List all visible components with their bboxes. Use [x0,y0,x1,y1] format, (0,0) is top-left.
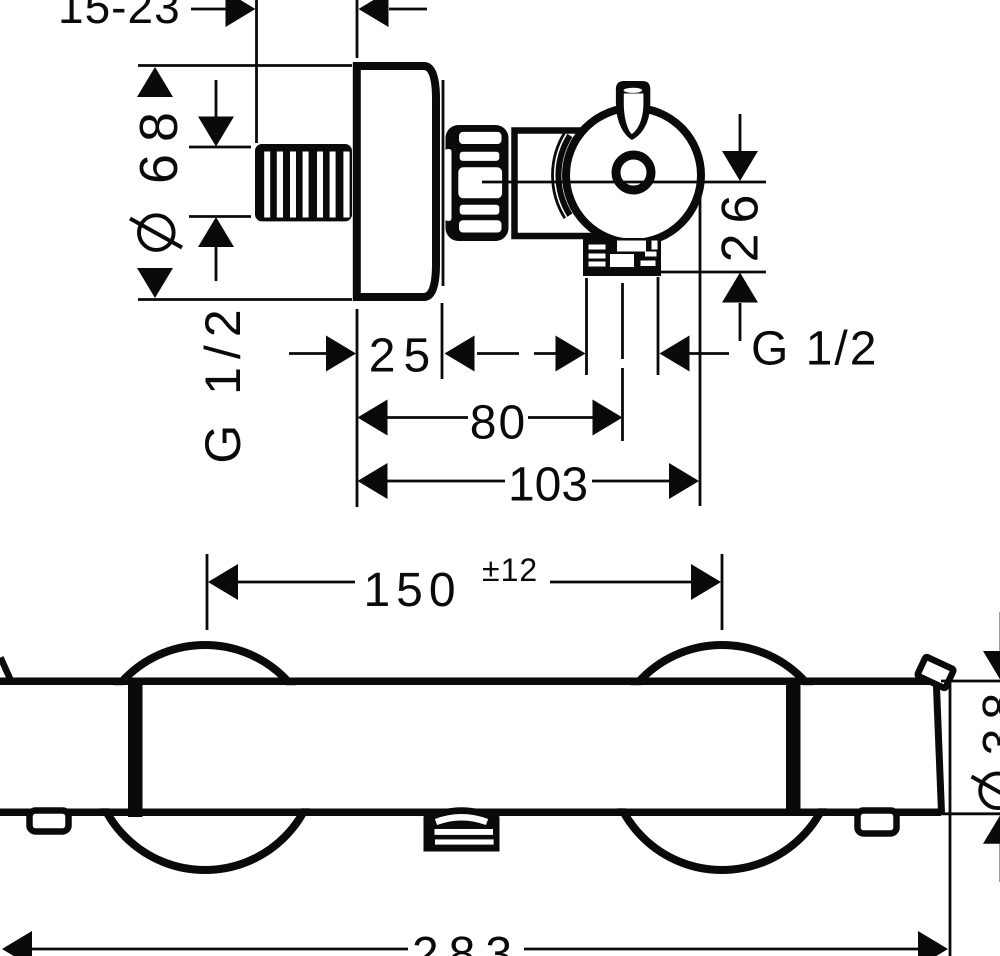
diameter symbol slash [972,777,1000,806]
arrowhead down at bar top [983,651,1000,681]
handle hub small circle [616,155,651,190]
bar body mask [0,685,1000,808]
dim line left part [387,416,468,419]
arrowhead up at bar bottom [983,814,1000,844]
dim line right part [550,581,691,584]
extension line: outlet bottom edge [658,271,766,274]
arrowhead right [669,463,699,499]
bar bottom edge [0,809,941,817]
extension line: right union center [721,554,724,630]
bottom hose outlet knob [424,807,500,851]
left plug [30,811,69,832]
dimension 15-23 (wall to plate) [58,0,427,143]
leader shaft left of 25 [289,352,327,355]
extension line: plate bottom [138,298,352,301]
leader shaft right [389,8,427,11]
left knob junction [128,678,143,818]
svg-text:26: 26 [712,185,770,263]
arrowhead left [208,564,238,600]
dim line left part [387,480,505,483]
left lever tab [1,658,12,683]
extension line: plate front [356,0,359,58]
arrowhead right-pointing at wall line [226,0,256,27]
diameter symbol slash [130,219,182,248]
left union circle [93,645,318,870]
extension line: bar bottom [941,812,1000,815]
extension line: bar right end [949,681,952,956]
arrowhead up at outlet bottom [722,273,758,303]
body rim thick arc [558,136,569,216]
extension line: outlet left edge [585,278,588,375]
dimension D38 (bar diameter, right) [941,612,1000,882]
dim line right part [524,948,918,951]
leader shaft to G 1/2 label [689,352,729,355]
arrowhead down at thread top [198,117,234,147]
valve body housing [515,131,633,237]
wall escutcheon plate (side view) [357,66,443,297]
svg-text:15-23: 15-23 [58,0,181,33]
extension line: thread top [189,146,251,149]
arrowhead left-pointing at plate line [359,0,389,27]
right union circle [610,645,835,870]
dimension 25 and G 1/2 right row [289,323,878,383]
arrowhead left at plate right line [445,336,475,372]
dimension 26 (center to outlet) [712,114,770,341]
connector shaft b [534,352,556,355]
diameter symbol circle [139,215,174,250]
leader shaft above [739,114,742,151]
dimension 80 [358,397,623,450]
extension line: plate right edge [441,303,444,379]
arrowhead up at thread bottom [198,217,234,247]
svg-text:150: 150 [363,564,461,617]
extension line: left union center [206,554,209,630]
arrowhead right [691,564,721,600]
diameter symbol circle [980,774,1000,809]
arrowhead right at plate left line [326,336,356,372]
arrowhead left at bar left end [2,931,32,956]
dim line right part [528,416,593,419]
threaded inlet nipple G1/2 (wall side) [255,144,352,221]
svg-text:68: 68 [129,100,189,184]
extension line: outlet centerline (dashed) [621,283,624,441]
top check-valve nipple [616,81,650,140]
arrowhead right at outlet left line [556,336,586,372]
extension line: wall plane [255,0,258,143]
svg-text:283: 283 [412,928,522,956]
right knob junction [786,678,801,816]
body rim thin arc [553,132,565,218]
arrowhead left at outlet right line [660,336,690,372]
extension line: valve right end [699,182,702,506]
extension line: plate left edge [356,309,359,507]
dimension G 1/2 (inlet thread, left) [189,80,251,464]
leader shaft below [739,303,742,341]
arrowhead left [358,400,388,436]
arrowhead down [137,268,173,298]
svg-text:±12: ±12 [482,552,538,588]
svg-text:38: 38 [974,684,1000,755]
dim line right part [592,480,670,483]
dimension 150 +-12 [207,552,722,630]
extension line: plate top [138,64,352,67]
svg-text:103: 103 [508,459,588,512]
arrowhead right [593,400,623,436]
centerline [482,181,766,184]
dim line left part [32,948,408,951]
bottom shower outlet (threaded) [583,238,661,276]
extension line: thread bottom [189,215,251,218]
thermostat handle circle [566,108,701,243]
arrowhead right at bar right end [918,931,948,956]
right lever tab [917,656,954,688]
arrowhead down at centerline [722,151,758,181]
connector shaft a [477,352,519,355]
hex union nut [445,125,508,241]
dimension 103 [358,459,700,512]
bar top edge [0,677,936,685]
dimension 283 (bar length) [2,681,950,956]
leader shaft left [191,8,226,11]
arrowhead left [358,463,388,499]
arrowhead up [137,67,173,97]
svg-text:25: 25 [369,330,438,383]
leader shaft above [215,80,218,117]
dimension D68 (plate diameter) [129,66,352,300]
extension line: outlet right edge [657,277,660,375]
leader shaft below [215,247,218,281]
dim line left part [238,581,355,584]
svg-text:80: 80 [470,397,527,450]
extension line: bar top [941,680,1000,683]
svg-text:G 1/2: G 1/2 [751,323,878,376]
svg-text:G 1/2: G 1/2 [195,301,251,463]
right plug [858,811,897,834]
right end cap [936,680,941,813]
